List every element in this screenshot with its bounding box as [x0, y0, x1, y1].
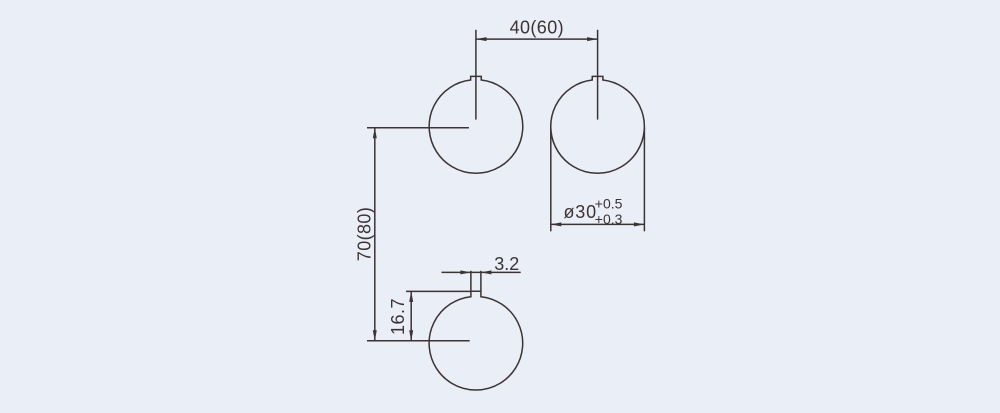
arrowhead 70(80) bottom [373, 330, 377, 341]
centerline horizontal top-left circle (extension of 70(80)) [367, 127, 469, 129]
arrowhead 3.2 left pointing right [460, 270, 471, 274]
arrowhead 40(60) left [476, 37, 487, 41]
hole circle bottom with keyway notch [429, 291, 523, 390]
svg-text:16.7: 16.7 [388, 298, 408, 335]
dimension line 3.2 with tails [442, 271, 521, 273]
arrowhead 16.7 top [409, 291, 413, 302]
centerline vertical top-right circle [597, 30, 599, 120]
dimension line 40(60) [476, 38, 598, 40]
arrowhead 70(80) top [373, 128, 377, 139]
svg-text:ø30: ø30 [564, 202, 597, 222]
extension line 16.7 top [406, 290, 471, 292]
centerline horizontal bottom circle (extension of 70(80)) [367, 340, 470, 342]
arrowhead dia30 left [551, 222, 562, 226]
svg-text:+0.5: +0.5 [595, 195, 623, 211]
extension lines 3.2 (keyway sides extended) [470, 271, 472, 291]
arrowhead 16.7 bottom [409, 330, 413, 341]
arrowhead 3.2 right pointing left [481, 270, 492, 274]
centerline vertical top-left circle [475, 30, 477, 120]
svg-text:3.2: 3.2 [494, 254, 519, 274]
svg-text:40(60): 40(60) [510, 18, 564, 38]
dimension line 70(80) [374, 128, 376, 341]
hole circle top-left with keyway notch [429, 76, 523, 173]
hole circle top-right with keyway notch [551, 76, 645, 173]
dimension line dia30 [551, 223, 645, 225]
svg-text:70(80): 70(80) [354, 207, 374, 261]
arrowhead 40(60) right [587, 37, 598, 41]
extension lines dia30 [550, 128, 552, 232]
svg-text:+0.3: +0.3 [595, 211, 623, 227]
dimension line 16.7 [410, 291, 412, 340]
arrowhead dia30 right [634, 222, 645, 226]
